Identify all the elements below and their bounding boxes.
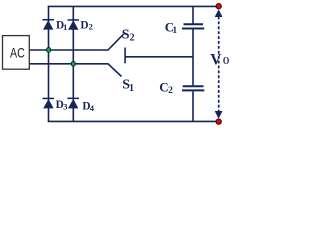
svg-text:D3: D3 <box>56 99 68 112</box>
svg-text:AC: AC <box>10 44 25 60</box>
svg-text:D2: D2 <box>80 19 92 31</box>
svg-text:O: O <box>223 56 229 67</box>
svg-text:D4: D4 <box>82 100 94 113</box>
svg-text:V: V <box>210 51 222 68</box>
svg-text:D1: D1 <box>56 19 67 32</box>
